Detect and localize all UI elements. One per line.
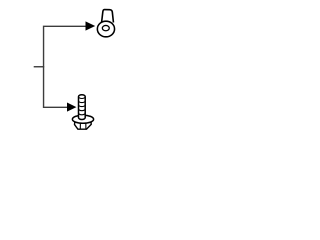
- bolt icon B1: hex facet line right: [85, 122, 87, 129]
- stud icon U1: shank dome: [102, 10, 114, 23]
- bolt icon B1: threaded shank body: [79, 95, 86, 120]
- bolt icon B1: shank top face edge: [79, 97, 86, 99]
- wire: left stub into tree trunk: [34, 66, 45, 68]
- arrowhead to top fastener icon: [86, 21, 96, 30]
- stud icon U1: head outer ellipse: [97, 21, 114, 37]
- bolt icon B1: thread line 4: [79, 113, 86, 115]
- arrowhead to bottom fastener icon: [67, 103, 76, 112]
- bolt icon B1: hex facet line left: [79, 122, 81, 129]
- bolt icon B1: thread line 2: [79, 105, 86, 107]
- bolt icon B1: thread line 3: [79, 109, 86, 111]
- bolt icon B1: flange washer: [72, 115, 93, 123]
- bolt icon B1: hex head body: [75, 121, 92, 129]
- wire: tree trunk with top and bottom branches: [44, 26, 86, 107]
- bolt icon B1: thread line 1: [79, 101, 86, 103]
- stud icon U1: head inner ellipse: [102, 25, 109, 30]
